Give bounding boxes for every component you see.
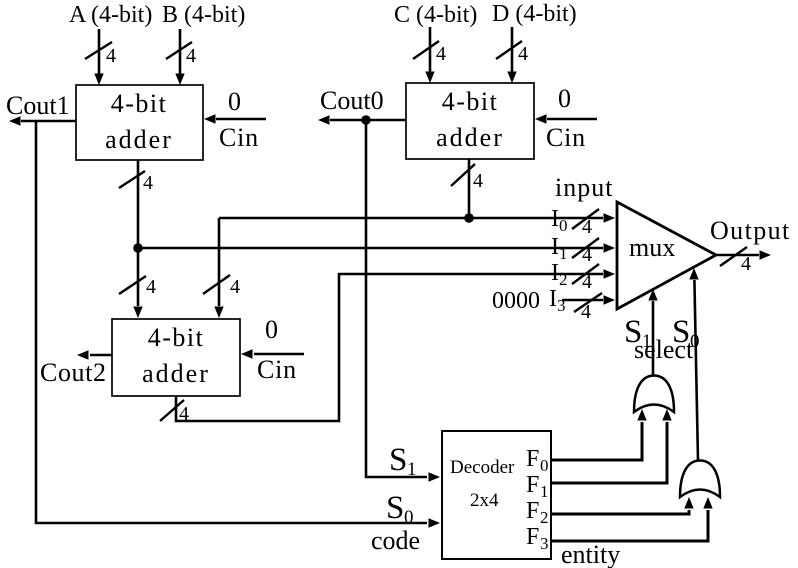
svg-text:adder: adder — [436, 123, 504, 152]
wire Cout0 to S1 decoder input — [366, 120, 440, 482]
bus slash mux I1 — [572, 238, 599, 266]
adder U1 (4-bit adder A+B) — [76, 85, 203, 160]
bus slash mux I2 — [572, 264, 599, 293]
svg-text:0: 0 — [404, 507, 414, 528]
svg-text:entity: entity — [561, 540, 620, 568]
svg-text:1: 1 — [540, 482, 549, 501]
bus slash B — [166, 42, 196, 67]
svg-text:0: 0 — [558, 84, 571, 113]
svg-text:S: S — [386, 490, 404, 526]
label C (4-bit) — [394, 2, 477, 28]
wire Cin adder U1 — [204, 114, 266, 123]
bus slash adder U3 sum — [160, 400, 189, 425]
bus slash output — [720, 247, 751, 275]
wire OR2 output to mux S0 — [689, 268, 698, 461]
svg-text:S: S — [389, 442, 407, 478]
label F2 — [526, 498, 549, 527]
decoder U5 — [442, 431, 551, 559]
svg-text:4-bit: 4-bit — [111, 89, 168, 118]
wire Cout1 out — [9, 116, 76, 125]
wire F2 to OR2 — [551, 497, 694, 514]
svg-text:2x4: 2x4 — [470, 490, 499, 511]
wire Cin adder U2 — [535, 114, 597, 123]
bus slash C — [413, 41, 446, 65]
svg-text:Cin: Cin — [546, 123, 586, 152]
svg-text:mux: mux — [629, 233, 675, 262]
svg-text:I: I — [549, 286, 557, 312]
label Cin (adder U3) — [257, 355, 297, 384]
label I3 — [549, 286, 566, 315]
svg-text:4: 4 — [230, 276, 240, 298]
wire Cout2 out — [77, 350, 112, 359]
bus slash I0 branch — [203, 275, 240, 298]
svg-text:2: 2 — [559, 270, 568, 289]
bus slash adder U1 sum — [119, 171, 153, 194]
wire I0 branch down to adder U3 — [214, 218, 223, 318]
svg-text:Cin: Cin — [219, 123, 259, 152]
bus slash D — [496, 41, 528, 65]
wire F1 to OR1 — [551, 409, 672, 483]
svg-text:0: 0 — [559, 216, 568, 235]
svg-text:3: 3 — [540, 534, 549, 553]
wire Cout0 out — [318, 115, 406, 124]
svg-text:2: 2 — [540, 508, 549, 527]
adder U3 (4-bit adder) — [112, 319, 240, 396]
label D (4-bit) — [492, 1, 577, 27]
label F3 — [526, 524, 549, 553]
svg-text:I: I — [551, 260, 559, 286]
wire adder U1 sum down to adder U3 — [133, 160, 142, 318]
svg-text:B (4-bit): B (4-bit) — [162, 2, 245, 28]
adder U2 (4-bit adder C+D) — [406, 83, 534, 159]
svg-text:4-bit: 4-bit — [148, 323, 205, 352]
svg-text:I: I — [551, 206, 559, 232]
bus slash mux I3 — [574, 293, 602, 323]
label Cin (adder U2) — [546, 123, 586, 152]
label select — [634, 335, 694, 364]
svg-text:4: 4 — [518, 43, 528, 65]
label input — [555, 173, 613, 202]
svg-text:Cout1: Cout1 — [6, 91, 70, 120]
wire I3 to mux — [562, 295, 615, 304]
or-gate G1 (S1) — [634, 376, 674, 413]
wire I1 to mux — [138, 243, 615, 252]
svg-text:4: 4 — [741, 253, 751, 275]
label 0 (Cin adder U2) — [558, 84, 571, 113]
wire adder U2 sum down — [468, 159, 471, 218]
bus slash A — [85, 42, 116, 67]
label Cout1 — [6, 91, 70, 120]
svg-text:4: 4 — [186, 45, 196, 67]
svg-text:Output: Output — [710, 216, 791, 245]
svg-text:4: 4 — [581, 301, 591, 323]
bus slash adder U2 sum — [451, 164, 483, 192]
svg-text:1: 1 — [559, 244, 568, 263]
label Cout2 — [40, 358, 107, 387]
label 0000 — [492, 288, 540, 314]
svg-text:A (4-bit): A (4-bit) — [69, 2, 152, 28]
svg-text:F: F — [526, 524, 539, 550]
label I2 — [551, 260, 568, 289]
svg-text:4: 4 — [179, 403, 189, 425]
svg-text:C (4-bit): C (4-bit) — [394, 2, 477, 28]
wire input C — [425, 27, 434, 83]
label F1 — [526, 472, 549, 501]
svg-text:4: 4 — [146, 276, 156, 298]
label F0 — [526, 446, 549, 475]
node junction adder U2 sum — [464, 213, 474, 223]
label I1 — [551, 234, 568, 263]
svg-text:4: 4 — [106, 45, 116, 67]
label Output — [710, 216, 791, 245]
label A (4-bit) — [69, 2, 152, 28]
svg-text:4: 4 — [436, 43, 446, 65]
node junction adder U1 sum — [133, 243, 143, 253]
svg-text:F: F — [526, 446, 539, 472]
label entity — [561, 540, 620, 568]
label S1 (mux select) — [624, 314, 652, 352]
label 0 (Cin adder U1) — [228, 87, 241, 116]
svg-text:4: 4 — [582, 244, 592, 266]
svg-text:F: F — [526, 472, 539, 498]
label S0 (mux select) — [672, 314, 700, 352]
label I0 — [551, 206, 568, 235]
wire Cout1 to S0 decoder input — [36, 121, 440, 528]
svg-text:F: F — [526, 498, 539, 524]
wire adder U3 sum to mux I2 — [176, 269, 615, 421]
or-gate G2 (S0) — [680, 461, 720, 498]
wire input A — [94, 29, 103, 85]
svg-text:Cout2: Cout2 — [40, 358, 107, 387]
wire input D — [507, 27, 516, 83]
svg-text:0000: 0000 — [492, 288, 540, 314]
svg-text:select: select — [634, 335, 694, 364]
svg-text:3: 3 — [557, 296, 566, 315]
wire OR1 output to mux S1 — [648, 289, 657, 375]
wire F3 to OR2 — [551, 497, 713, 541]
svg-text:1: 1 — [407, 459, 417, 480]
bus slash mux I0 — [572, 209, 599, 238]
svg-text:Cin: Cin — [257, 355, 297, 384]
wire Cin adder U3 — [241, 349, 304, 358]
label B (4-bit) — [162, 2, 245, 28]
svg-text:adder: adder — [142, 359, 210, 388]
bus slash below junction — [119, 276, 156, 298]
label code — [371, 526, 420, 555]
wire F0 to OR1 — [551, 409, 647, 460]
wire input B — [175, 29, 184, 85]
label Cout0 — [320, 86, 384, 115]
svg-text:Decoder: Decoder — [450, 457, 515, 478]
svg-text:0: 0 — [540, 456, 549, 475]
svg-text:0: 0 — [265, 315, 278, 344]
label S1 (decoder input) — [389, 442, 417, 480]
svg-text:4: 4 — [143, 172, 153, 194]
svg-text:4: 4 — [582, 216, 592, 238]
svg-text:input: input — [555, 173, 613, 202]
svg-text:0: 0 — [228, 87, 241, 116]
svg-text:D (4-bit): D (4-bit) — [492, 1, 577, 27]
label 0 (Cin adder U3) — [265, 315, 278, 344]
svg-text:Cout0: Cout0 — [320, 86, 384, 115]
mux U4 — [617, 202, 716, 309]
wire I0 to mux — [219, 213, 615, 222]
node junction Cout0 — [361, 115, 371, 125]
svg-text:I: I — [551, 234, 559, 260]
svg-text:4-bit: 4-bit — [442, 87, 499, 116]
label S0 (decoder input) — [386, 490, 414, 528]
svg-text:adder: adder — [105, 125, 173, 154]
svg-text:4: 4 — [582, 271, 592, 293]
label Cin (adder U1) — [219, 123, 259, 152]
svg-text:code: code — [371, 526, 420, 555]
wire mux output — [716, 250, 771, 259]
svg-text:4: 4 — [473, 170, 483, 192]
